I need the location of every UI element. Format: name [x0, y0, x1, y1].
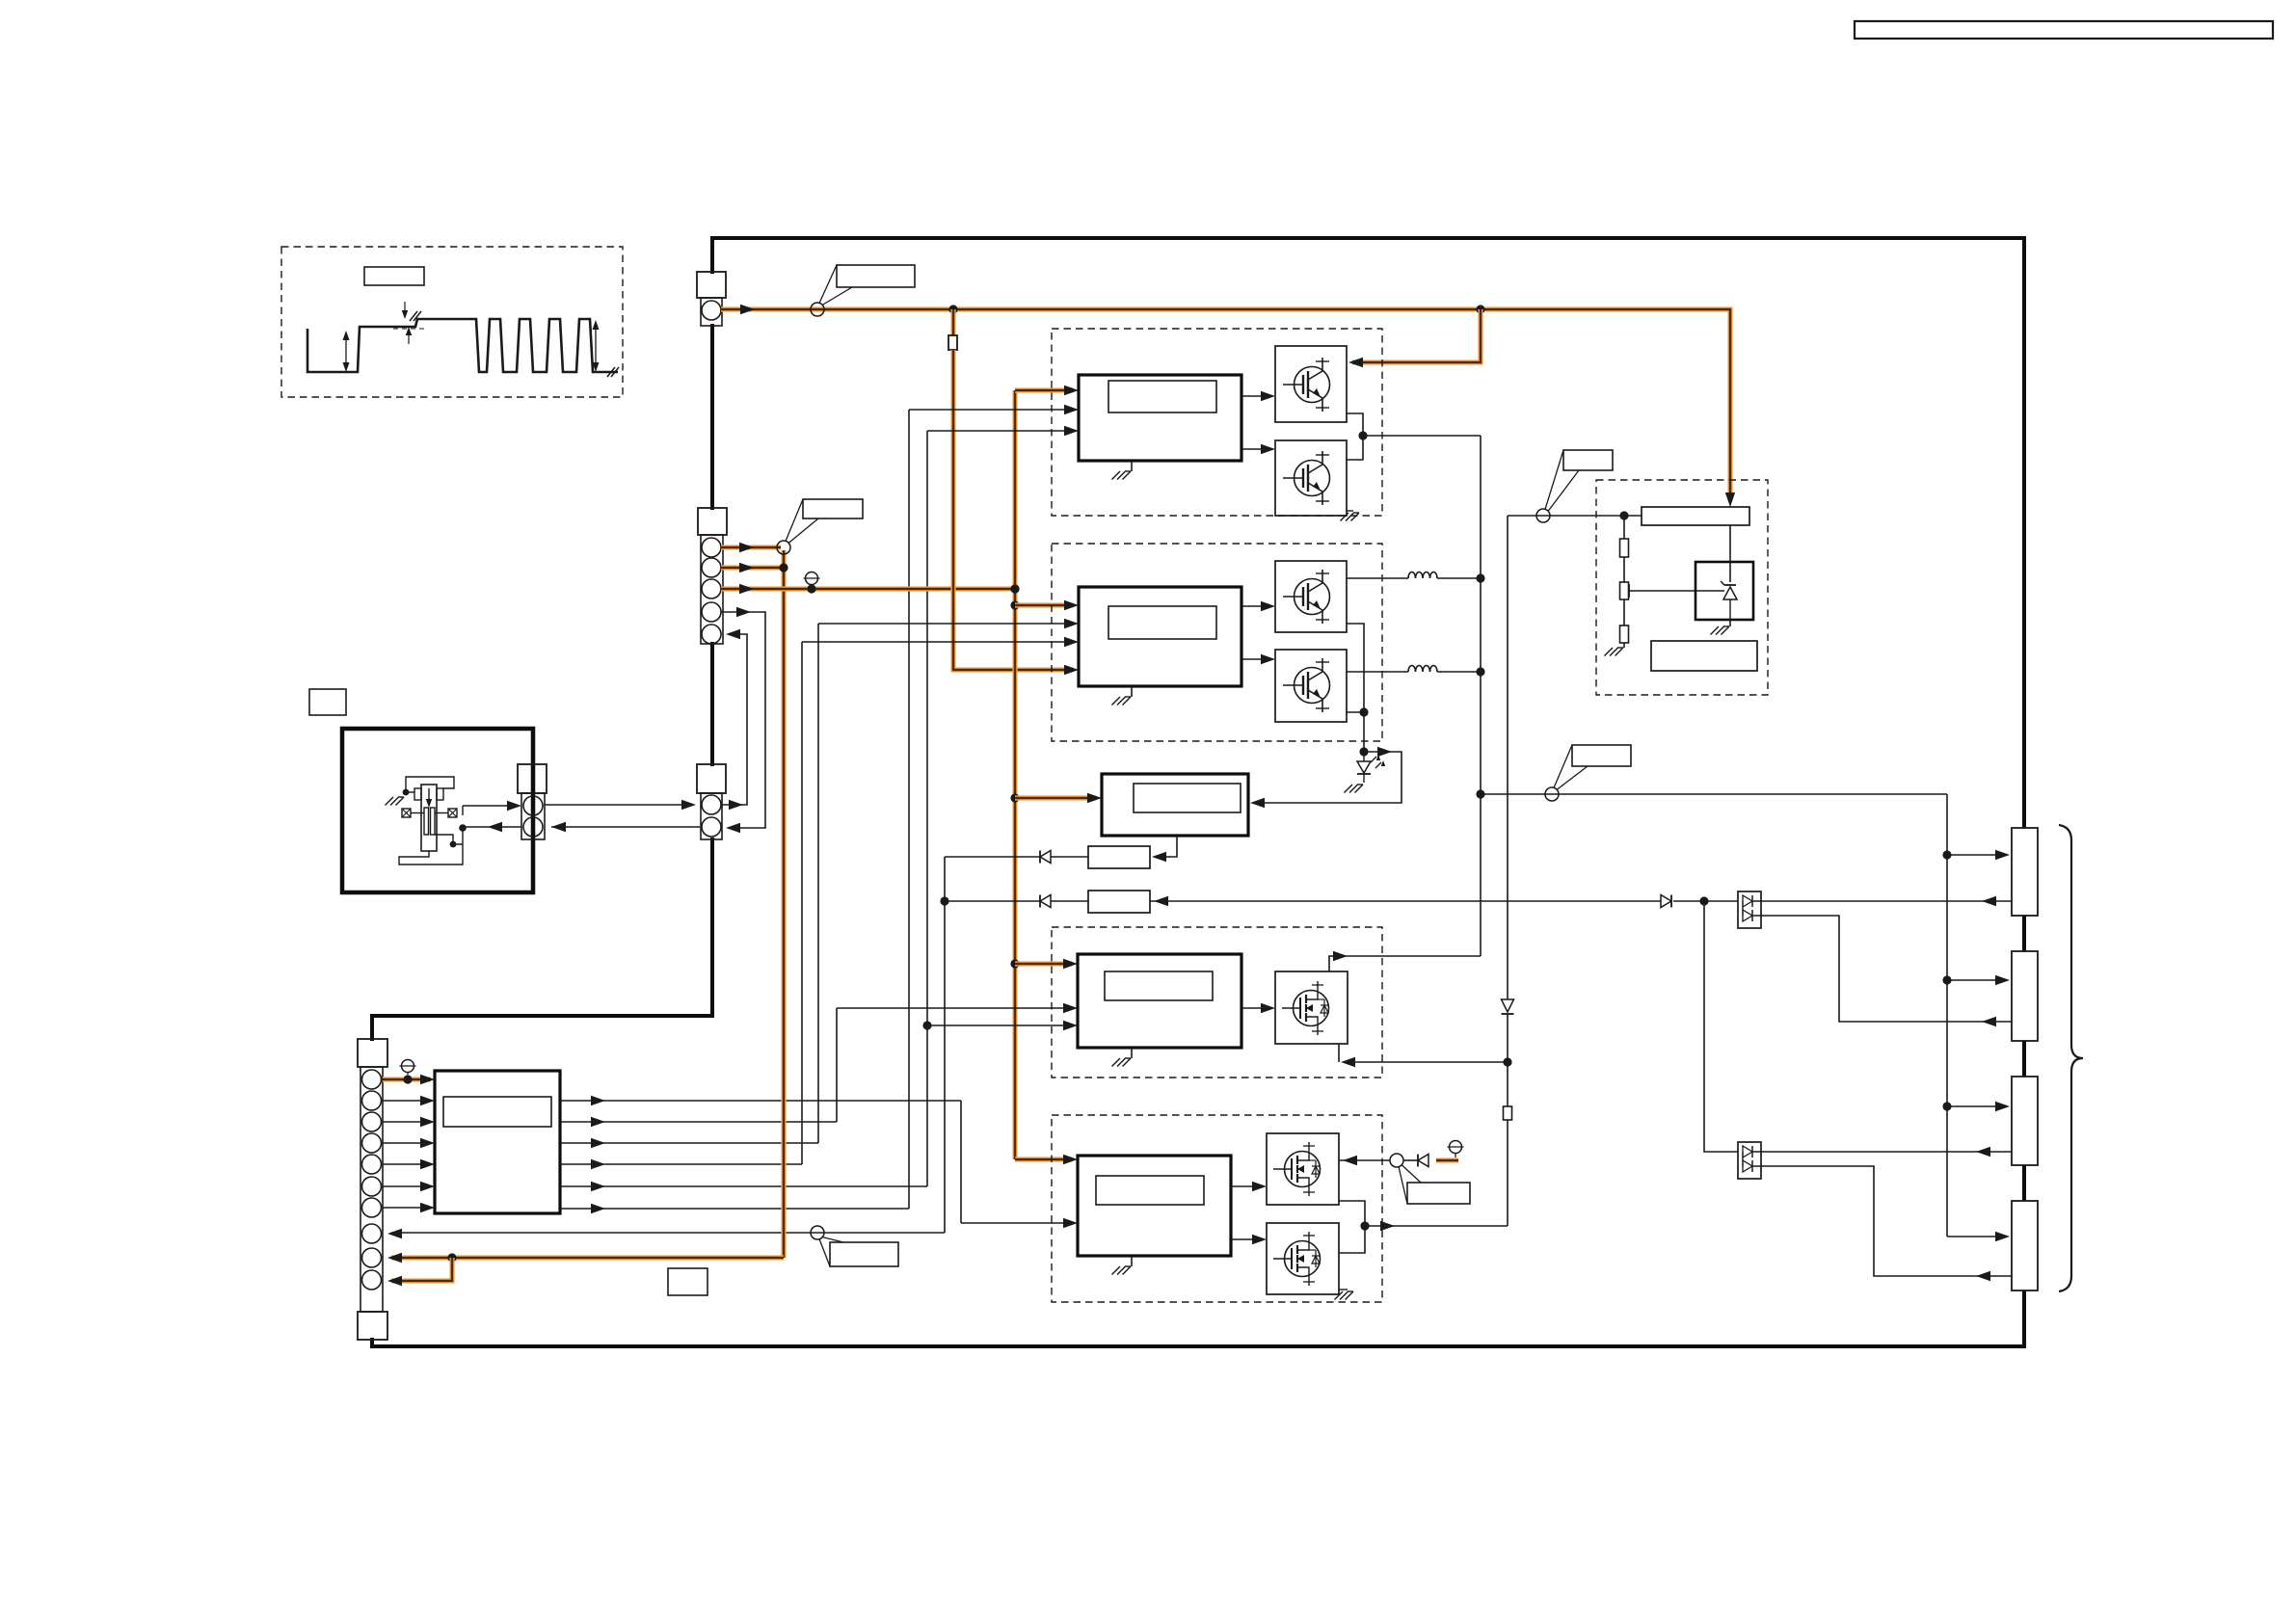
callout pin8 — [811, 1226, 824, 1239]
diode pack2 internal link — [1742, 1152, 1744, 1166]
diode pack1 internal link — [1742, 901, 1744, 916]
resistor R1 — [2012, 828, 2038, 916]
wire Q6-Q7 midpoint — [1339, 1201, 1365, 1253]
zener ZD1 — [1723, 587, 1737, 599]
wire Q6 gate sense — [1339, 1159, 1390, 1161]
wire CN2 pin2 (orange) — [721, 565, 782, 570]
page title box — [1855, 21, 2273, 39]
wire chainB to pack — [1673, 900, 1738, 902]
wire Q3-Q4 midpoint — [1347, 624, 1364, 752]
wire DC bus x1536 — [1480, 436, 1482, 956]
wire MCU out3 — [560, 1142, 818, 1144]
waveform dim arrow left — [345, 334, 347, 369]
wire driver2 gate bottom — [1241, 658, 1269, 660]
driver IC1 block — [1079, 375, 1241, 461]
test point TP3 — [1450, 1141, 1462, 1154]
main board border left segment 2 — [710, 324, 714, 510]
connector CN2 pin 1 — [702, 538, 721, 557]
main board border top — [712, 236, 2024, 240]
fuse F1 — [948, 335, 957, 350]
node LED tap — [1359, 747, 1368, 756]
LED D5 photon arrows — [1371, 757, 1376, 762]
IGBT Q3 box — [1275, 561, 1347, 632]
wire orange rail to driver1 (orange) — [1015, 387, 1073, 392]
diode D9 — [1418, 1155, 1428, 1167]
wire pack link down — [1704, 901, 1738, 1152]
diode D8 — [1661, 895, 1671, 908]
wire pack1 out2 to R2 — [1752, 916, 2012, 1022]
wire L2 to bus — [1437, 671, 1481, 673]
wire driver3 in3 — [927, 1024, 1072, 1026]
wire divider mid1 — [1623, 557, 1625, 582]
driver IC3 label box — [1105, 971, 1213, 1000]
diode pack1 diode a — [1743, 895, 1752, 907]
waveform dim arrow right — [595, 324, 597, 369]
connector CN4 pin 5 — [362, 1155, 382, 1174]
block IC5 label box — [1134, 784, 1241, 812]
wire to CN4 pin9 (orange) — [391, 1255, 784, 1260]
wire midpoint to bus — [1363, 435, 1481, 437]
wire fan midpoint out — [1365, 1225, 1508, 1227]
wire rail to R2 — [1947, 979, 2004, 981]
driver 1 dashed box — [1052, 329, 1382, 516]
feedback resistor box B — [1088, 891, 1150, 913]
wire R1-R2 link — [2022, 916, 2026, 951]
connector CN2 pin 2 — [702, 558, 721, 577]
connector CN4 pin 6 — [362, 1177, 382, 1196]
wire R2-R3 link — [2022, 1041, 2026, 1077]
wire CN3 pin1 to CN2 pin5 — [721, 634, 747, 805]
connector CN4 body — [360, 1067, 383, 1312]
wire orange rail (orange) — [1012, 390, 1017, 1159]
wire bus x980 — [944, 857, 946, 1233]
fan unit dashed box — [1596, 480, 1768, 695]
MOSFET Q7 symbol — [1285, 1241, 1321, 1277]
wire CN4 pin7 to MCU — [383, 1207, 431, 1209]
sensor electrode right — [431, 808, 436, 835]
MOSFET Q5 box — [1275, 971, 1348, 1044]
diode D6 — [1040, 851, 1051, 864]
inductor L1 — [1408, 572, 1437, 579]
diode pack2 diode a — [1743, 1146, 1752, 1157]
diode pack2 diode b — [1743, 1160, 1752, 1172]
wire CN4 pin4 to MCU — [383, 1142, 431, 1144]
IGBT Q2 symbol — [1295, 461, 1330, 496]
wire orange branch to Q1 (orange) — [1352, 309, 1481, 362]
diode pack box 2 — [1738, 1142, 1761, 1179]
diode pack1 diode b — [1743, 910, 1752, 921]
wire bus x832 — [801, 642, 803, 1164]
sensor ground — [398, 796, 404, 798]
wire pack2 out2 to R4 — [1752, 1166, 2012, 1276]
wire driver4 gate bottom — [1231, 1238, 1261, 1240]
test point TP2 — [806, 572, 818, 585]
wire Q1-Q2 midpoint — [1347, 413, 1363, 460]
main board border left segment 5 — [370, 1014, 374, 1041]
wire pack2 out1 to R3 — [1752, 1151, 2012, 1153]
diode pack box 1 — [1738, 891, 1761, 928]
wire CN2 pin1 vertical (orange) — [781, 550, 786, 1258]
connector CN3 pin 2 — [702, 817, 721, 837]
wire driver1 gate top — [1241, 395, 1269, 397]
wire Q4 output — [1347, 671, 1408, 673]
wire Q5 source stub — [1338, 1044, 1340, 1062]
driver IC3 block — [1078, 954, 1241, 1048]
connector CN4 top cap — [358, 1039, 387, 1067]
IGBT Q2 box — [1275, 440, 1347, 516]
wire CN4 pin3 to MCU — [383, 1121, 431, 1123]
wire rail to R1 — [1947, 854, 2004, 856]
driver IC4 label box — [1096, 1176, 1204, 1205]
wire pack1 out1 to R1 — [1752, 900, 2012, 902]
wire column x1564 mid — [1507, 1014, 1508, 1106]
wire column x1564 lower — [1507, 1120, 1508, 1226]
resistor R3 — [2012, 1077, 2038, 1165]
waveform step arrows — [402, 310, 408, 319]
wire Q5 source return — [1345, 1061, 1508, 1063]
wire sensor link pin1 — [545, 804, 688, 806]
waveform trace — [307, 319, 618, 372]
wire driver4 gate top — [1231, 1185, 1261, 1187]
wire zener gate tap — [1628, 584, 1630, 598]
wire CN2 pin1 (orange) — [721, 545, 781, 549]
node sensor out — [459, 824, 467, 832]
main board border left segment 1 — [710, 236, 714, 274]
wire driver3 in2 — [837, 1007, 1072, 1009]
connector CN3 housing — [697, 764, 726, 793]
wire sensor gnd node — [403, 789, 410, 796]
wire Q3 output — [1347, 577, 1408, 579]
wire to fan unit — [1508, 515, 1642, 517]
IGBT Q1 symbol — [1295, 367, 1330, 403]
block IC5 — [1102, 774, 1248, 836]
driver IC2 label box — [1108, 606, 1216, 639]
diode D10 — [1502, 999, 1514, 1012]
wire fan sense (orange) — [1436, 1157, 1458, 1162]
wire CN2 pin4 to CN3 pin2 — [721, 612, 765, 828]
main board border left segment 3 — [710, 642, 714, 766]
connector sensor-side housing — [518, 764, 547, 793]
connector CN4 pin 7 — [362, 1198, 382, 1217]
MOSFET Q5 symbol — [1294, 991, 1329, 1026]
MOSFET Q7 ground — [1339, 1289, 1348, 1290]
MCU ground label box — [668, 1268, 707, 1295]
wire driver4 in2 — [961, 1222, 1072, 1224]
fan unit top box — [1642, 507, 1749, 525]
wire sensor X left — [411, 812, 424, 814]
callout CN2 pin1 — [777, 541, 790, 554]
callout sense rail — [1545, 787, 1559, 801]
wire orange rail to driver3 (orange) — [1015, 961, 1072, 966]
wire rail to R3 — [1947, 1105, 2004, 1107]
driver IC2 block — [1079, 587, 1241, 686]
wire CN2 pin3 (orange) — [721, 586, 1013, 591]
wire sensor out1 — [435, 835, 463, 844]
wire chainB mid — [1051, 900, 1088, 902]
resistor R5 — [1504, 1106, 1512, 1120]
wire fan sense diode link — [1403, 1159, 1418, 1161]
wire chainB arrow — [1150, 900, 1661, 902]
waveform legend dashed box — [281, 247, 623, 397]
sensor unit label box — [309, 689, 346, 715]
sensor electrode left — [424, 808, 429, 835]
IGBT Q1 box — [1275, 346, 1347, 422]
driver 4 dashed box — [1052, 1115, 1382, 1302]
wire CN4 pin1 to MCU (orange) — [383, 1077, 431, 1081]
wire bus x868 — [836, 1008, 838, 1122]
sensor terminal X right — [448, 809, 457, 817]
main board border left segment 4 — [710, 838, 714, 1016]
sensor unit box — [342, 729, 533, 892]
resistor R2 — [2012, 951, 2038, 1041]
wire divider mid2 — [1623, 599, 1625, 625]
main board border step — [372, 1014, 714, 1018]
connector CN4 pin 8 — [362, 1224, 382, 1243]
connector CN4 pin 1 — [362, 1070, 382, 1089]
wire driver3 gate — [1241, 1007, 1269, 1009]
connector CN1 pin 1 — [702, 301, 721, 320]
resistor R7 — [1620, 582, 1629, 599]
wire IC5 bottom out — [1156, 836, 1177, 857]
MOSFET Q6 symbol — [1285, 1152, 1321, 1187]
wire driver1 in2 — [909, 409, 1073, 411]
test point TP1 — [402, 1060, 414, 1073]
wire Q5 drain out — [1329, 956, 1481, 971]
callout fan — [1390, 1154, 1403, 1167]
wire sensor to pin2 — [463, 826, 521, 828]
wire divider bottom — [1623, 643, 1625, 648]
feedback resistor box A — [1088, 846, 1150, 868]
wire R3-R4 link — [2022, 1165, 2026, 1201]
wire bus x849 — [817, 624, 819, 1143]
wire LED loop — [1254, 752, 1402, 803]
zener unit box — [1695, 562, 1753, 620]
sensor element body — [421, 785, 437, 851]
wire top box to zener — [1729, 525, 1731, 582]
resistor R4 — [2012, 1201, 2038, 1290]
brace heater group — [2059, 825, 2083, 1291]
main board border bottom — [370, 1344, 2024, 1348]
wire driver2 gate top — [1241, 605, 1269, 607]
wire MCU out2 — [560, 1121, 837, 1123]
sensor terminal X left — [402, 809, 411, 817]
connector CN3 pin 1 — [702, 795, 721, 814]
wire Q4 lower link — [1347, 711, 1364, 713]
wire AC bus (orange) — [721, 309, 1730, 500]
wire orange rail to driver2 (orange) — [1015, 602, 1073, 607]
IGBT Q4 box — [1275, 650, 1347, 722]
IGBT Q2 ground — [1347, 510, 1353, 512]
wire sensor to pin1 — [462, 806, 464, 815]
wire sensor top loop — [406, 777, 454, 792]
connector CN1 housing — [697, 272, 726, 298]
sensor element arrow — [428, 788, 430, 802]
wire sensor bottom loop — [399, 828, 463, 865]
wire fuse branch lower (orange) — [953, 350, 1073, 670]
driver 3 dashed box — [1052, 927, 1382, 1078]
wire CN4 pin6 to MCU — [383, 1185, 431, 1187]
wire column x1564 upper — [1507, 516, 1508, 999]
wire rail to R4 — [1947, 1236, 2004, 1237]
diode D7 — [1040, 895, 1051, 908]
driver IC2 ground — [1131, 686, 1133, 697]
wire fuse branch upper (orange) — [950, 309, 955, 335]
connector sensor-side pin 1 — [523, 796, 543, 815]
wire MCU out4 — [560, 1163, 802, 1165]
wire divider top — [1623, 516, 1625, 539]
wire bus x997 — [960, 1101, 962, 1223]
MCU inner label box — [443, 1097, 551, 1127]
wire orange rail to block5 (orange) — [1015, 795, 1096, 800]
wire to CN4 pin8 — [391, 1232, 945, 1234]
wire chainA — [1051, 856, 1088, 858]
LED D5 ground — [1357, 784, 1363, 785]
wire CN4 pin5 to MCU — [383, 1163, 431, 1165]
wire MCU out5 — [560, 1185, 927, 1187]
wire MCU out6 — [560, 1208, 909, 1210]
wire driver1 gate bottom — [1241, 448, 1269, 450]
wire orange rail to driver4 (orange) — [1015, 1157, 1072, 1161]
main board border right upper — [2022, 236, 2026, 828]
wire zener to ground — [1729, 620, 1731, 626]
MOSFET Q6 box — [1267, 1133, 1339, 1205]
resistor R6 — [1620, 539, 1629, 557]
wire bus x943 — [908, 410, 910, 1209]
connector CN2 pin 4 — [702, 602, 721, 622]
wire bus x962 — [926, 431, 928, 1186]
waveform break marks — [410, 311, 417, 321]
connector CN4 pin 4 — [362, 1133, 382, 1153]
wire sensor X right — [435, 812, 448, 814]
wire driver2 in2 — [818, 623, 1073, 625]
callout fan unit — [1536, 509, 1550, 522]
divider ground — [1617, 647, 1623, 649]
wire to CN4 pin10 (orange) — [391, 1258, 452, 1281]
connector sensor-side pin 2 — [523, 817, 543, 837]
waveform legend label box — [364, 267, 424, 285]
connector CN4 pin 3 — [362, 1112, 382, 1131]
IGBT Q3 symbol — [1295, 579, 1330, 615]
MOSFET Q7 box — [1267, 1223, 1339, 1294]
wire CN4 pin2 to MCU — [383, 1100, 431, 1102]
resistor R8 — [1620, 625, 1629, 643]
driver 2 dashed box — [1052, 544, 1382, 741]
inductor L2 — [1408, 666, 1437, 673]
wire rail vertical x2020 — [1946, 794, 1948, 1237]
LED D5 — [1363, 752, 1365, 761]
driver IC4 ground — [1131, 1256, 1133, 1266]
wire chainB left — [945, 900, 1040, 902]
driver IC1 label box — [1108, 381, 1216, 412]
MCU block — [435, 1071, 560, 1213]
wire MCU out1 — [560, 1100, 961, 1102]
main board border left segment 6 — [370, 1338, 374, 1346]
connector CN2 pin 3 — [702, 579, 721, 599]
driver IC3 ground — [1131, 1048, 1133, 1058]
driver IC4 block — [1078, 1156, 1231, 1256]
callout AC bus — [811, 303, 824, 316]
wire driver2 in3 — [802, 641, 1073, 643]
wire L1 to bus — [1437, 577, 1481, 579]
connector CN4 pin 10 — [362, 1270, 382, 1290]
wire sensor link pin2 — [551, 826, 700, 828]
IGBT Q4 symbol — [1295, 668, 1330, 704]
driver IC1 ground — [1131, 461, 1133, 471]
main board border right lower — [2022, 1289, 2026, 1348]
wire driver1 in3 — [927, 430, 1073, 432]
connector CN2 housing — [698, 508, 727, 535]
wire chainA to bus — [945, 856, 1040, 858]
connector CN2 pin 5 — [702, 625, 721, 644]
connector CN4 pin 2 — [362, 1091, 382, 1110]
wire sense rail top — [1481, 793, 1947, 795]
connector CN4 bottom cap — [358, 1312, 387, 1340]
connector CN4 pin 9 — [362, 1248, 382, 1267]
fan unit bottom box — [1651, 641, 1757, 671]
